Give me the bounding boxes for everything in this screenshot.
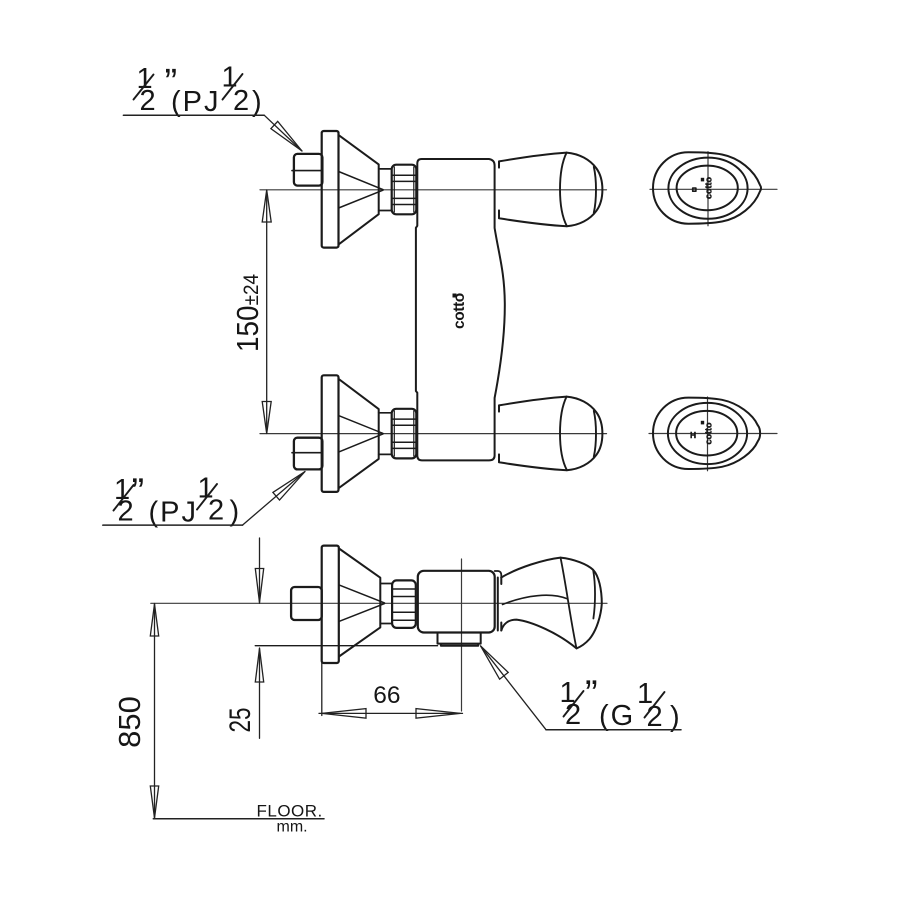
bottom side view horizontal centerline <box>649 433 777 435</box>
svg-text:66: 66 <box>373 682 400 709</box>
svg-text:mm.: mm. <box>277 819 308 836</box>
third view outlet reference line <box>255 645 437 647</box>
floor line <box>153 818 324 820</box>
bottom label arrow <box>273 472 305 501</box>
third view valve body <box>418 571 495 633</box>
top side view center square <box>693 188 696 191</box>
third view flange <box>322 546 339 663</box>
25 arrow up <box>255 649 263 683</box>
G label underline <box>546 729 681 731</box>
body left edge step bottom <box>416 391 417 393</box>
svg-text:2: 2 <box>208 495 224 527</box>
top label arrow <box>271 121 302 151</box>
third view stem upper line <box>380 583 392 585</box>
svg-text:25: 25 <box>223 707 257 732</box>
top stem upper line <box>379 168 392 170</box>
svg-text:H: H <box>690 430 696 440</box>
svg-text:2: 2 <box>233 85 249 117</box>
bottom cone funnel line lower <box>339 434 383 452</box>
66 dimension line <box>319 712 463 714</box>
third view cone <box>339 549 380 657</box>
top side view middle ellipse <box>668 158 747 219</box>
top valve centerline <box>260 189 607 191</box>
body outline <box>416 159 505 460</box>
150 arrow down <box>262 402 271 434</box>
bottom handle cap arc <box>560 397 567 471</box>
top cone funnel line upper <box>339 172 383 190</box>
850 dimension line <box>154 604 156 819</box>
top cone funnel line lower <box>339 190 383 208</box>
third view funnel line upper <box>339 585 385 603</box>
svg-text:”: ” <box>585 674 598 716</box>
bottom side view middle ellipse <box>668 403 747 464</box>
bottom side view registered dot <box>701 421 704 425</box>
850 arrow down <box>150 786 158 818</box>
bottom cone funnel line upper <box>339 416 383 434</box>
third view vertical centerline <box>461 559 463 711</box>
svg-text:): ) <box>230 496 240 528</box>
bottom side view outer egg <box>653 398 760 469</box>
third view handle outline <box>501 558 602 649</box>
bottom nipple thread line <box>292 452 322 454</box>
top escutcheon flange <box>322 131 339 248</box>
bottom handle end face arc <box>594 411 596 457</box>
bottom escutcheon cone <box>339 379 379 488</box>
bottom handle knob <box>499 397 602 471</box>
bottom label fraction1 slash <box>114 485 134 511</box>
150 dimension line <box>266 190 268 434</box>
body left edge step top <box>416 226 417 228</box>
svg-text:cotto: cotto <box>704 422 714 444</box>
third view body neck <box>495 571 502 578</box>
top side view registered dot <box>701 178 704 182</box>
top side view vertical centerline <box>707 152 709 226</box>
25 arrow down <box>255 569 263 603</box>
bottom hex edge ticks <box>394 411 414 456</box>
bottom label fraction2 slash <box>197 484 217 510</box>
bottom valve centerline <box>260 433 607 435</box>
svg-text:(PJ: (PJ <box>149 497 199 529</box>
bottom escutcheon flange <box>322 375 339 492</box>
top label fraction1 slash <box>134 75 154 100</box>
third view nipple <box>291 587 322 620</box>
bottom hex facet lines <box>393 419 416 448</box>
third view funnel line lower <box>339 604 385 622</box>
svg-text:cotto: cotto <box>704 177 714 199</box>
top side view horizontal centerline <box>650 188 777 190</box>
bottom eccentric nipple (threaded) <box>294 438 323 470</box>
third view handle cap arc <box>593 570 595 618</box>
bottom hex nut body <box>392 409 417 459</box>
svg-text:(PJ: (PJ <box>171 86 221 118</box>
third view handle stem <box>498 578 502 631</box>
top handle end face arc <box>594 167 596 213</box>
cotto registered dot <box>453 294 457 298</box>
top handle cap arc <box>560 153 567 227</box>
G label arrow <box>481 646 509 679</box>
bottom side view inner ellipse <box>676 411 737 456</box>
bottom side view vertical centerline <box>707 397 709 471</box>
third view hex facet lines <box>393 589 415 620</box>
25 extension line lower <box>259 648 261 738</box>
third view outlet fitting <box>438 633 481 646</box>
top escutcheon cone <box>339 135 379 244</box>
top hex edge ticks <box>394 167 414 212</box>
bottom label underline <box>103 524 243 526</box>
top stem lower line <box>379 210 392 212</box>
66 arrow right <box>416 709 461 719</box>
third view hex nut <box>392 580 416 628</box>
25 extension line upper <box>259 538 261 603</box>
top label fraction2 slash <box>223 74 243 100</box>
top handle knob <box>499 153 602 227</box>
svg-text:”: ” <box>132 472 145 514</box>
svg-text:): ) <box>670 701 680 733</box>
150 arrow up <box>262 190 271 222</box>
third view handle crease <box>561 558 577 649</box>
svg-text:850: 850 <box>112 696 147 748</box>
third view handle waist curve <box>503 595 568 604</box>
third view stem lower line <box>380 623 392 625</box>
top eccentric nipple (threaded) <box>294 154 323 186</box>
G label fraction2 slash <box>645 692 665 718</box>
svg-text:): ) <box>252 86 262 118</box>
top hex nut body <box>392 165 417 215</box>
top nipple thread line <box>292 170 322 172</box>
66 arrow left <box>322 709 366 719</box>
G label fraction1 slash <box>564 691 584 717</box>
top label underline <box>123 114 264 116</box>
top hex facet lines <box>393 175 416 204</box>
top side view inner ellipse <box>677 166 738 211</box>
top side view outer egg <box>653 152 761 223</box>
third view horizontal centerline <box>151 602 607 604</box>
bottom label leader <box>243 472 306 526</box>
top label leader <box>264 115 302 151</box>
66 left extension line <box>321 663 323 716</box>
cotto logo on body <box>451 293 468 329</box>
bottom stem upper line <box>379 412 392 414</box>
bottom stem lower line <box>379 453 392 455</box>
850 arrow up <box>150 604 158 636</box>
svg-text:cotto: cotto <box>451 293 468 329</box>
G label leader <box>481 646 547 730</box>
svg-text:(G: (G <box>599 700 635 732</box>
